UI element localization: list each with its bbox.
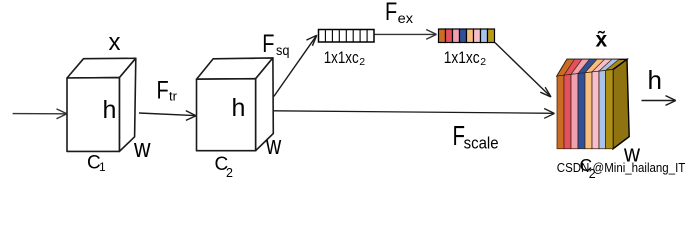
svg-text:w: w [133,133,151,163]
svg-text:2: 2 [359,56,365,68]
svg-text:x: x [109,29,121,56]
side face [613,59,629,149]
wire input arrow [13,109,67,119]
svg-text:1x1xc: 1x1xc [324,48,359,67]
top face [557,59,627,76]
wire excitation-to-block arrow [495,43,551,97]
svg-text:x̃: x̃ [596,28,608,51]
node squeeze bar 1x1xc2 [319,30,375,43]
svg-text:2: 2 [480,56,486,68]
svg-text:scale: scale [464,134,499,153]
svg-text:sq: sq [276,42,290,58]
front stripes [557,70,613,149]
svg-text:h: h [648,65,662,95]
svg-text:h: h [103,96,117,124]
node excitation bar colored 1x1xc2 [439,29,495,43]
svg-text:F: F [157,76,169,104]
svg-text:1: 1 [99,160,106,174]
svg-text:CSDN @Mini_hailang_IT: CSDN @Mini_hailang_IT [557,160,686,175]
top stripes [557,59,619,76]
wire F_scale arrow [274,109,555,119]
wire F_tr arrow [139,111,196,121]
svg-text:h: h [232,94,246,122]
wire F_sq diagonal arrow [274,35,317,96]
svg-text:ex: ex [398,10,413,26]
svg-text:2: 2 [226,166,233,180]
svg-text:1x1xc: 1x1xc [444,48,480,67]
wire F_ex arrow [375,30,437,40]
svg-text:tr: tr [169,88,178,103]
svg-text:F: F [262,30,274,58]
node X input cube [67,58,136,151]
svg-text:w: w [265,130,281,160]
node output block X-tilde [557,59,629,149]
node U cube2 [197,58,274,151]
svg-text:F: F [385,0,397,26]
wire output arrow [642,96,676,106]
